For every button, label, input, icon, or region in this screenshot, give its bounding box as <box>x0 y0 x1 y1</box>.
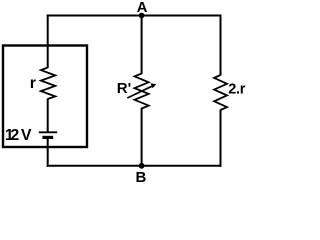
svg-text:B: B <box>136 169 147 186</box>
svg-text:R': R' <box>117 80 131 97</box>
wire left branch lower (battery to bottom rail) <box>47 138 49 167</box>
svg-text:A: A <box>137 0 148 16</box>
rheostat R' arrow <box>127 86 153 98</box>
svg-text:12V: 12V <box>5 127 32 144</box>
battery cell 12V long plate <box>39 131 57 133</box>
node A junction dot <box>139 13 145 19</box>
svg-text:r: r <box>30 75 36 92</box>
wire left branch mid (resistor to battery) <box>47 99 49 133</box>
resistor r zigzag <box>41 68 55 100</box>
battery cell 12V short plate <box>42 136 53 139</box>
wire bottom (node B rail) <box>47 165 222 167</box>
battery box outline <box>3 46 87 148</box>
resistor 2.r zigzag <box>214 75 227 110</box>
wire left branch upper <box>47 15 49 69</box>
wire right side lower <box>220 110 222 167</box>
svg-text:2.r: 2.r <box>228 82 245 98</box>
wire middle branch lower <box>141 108 143 167</box>
wire top (node A rail) <box>47 15 222 17</box>
wire right side down <box>220 15 222 76</box>
rheostat R' zigzag <box>135 74 149 109</box>
node B junction dot <box>139 163 145 169</box>
wire middle branch upper <box>141 15 143 75</box>
